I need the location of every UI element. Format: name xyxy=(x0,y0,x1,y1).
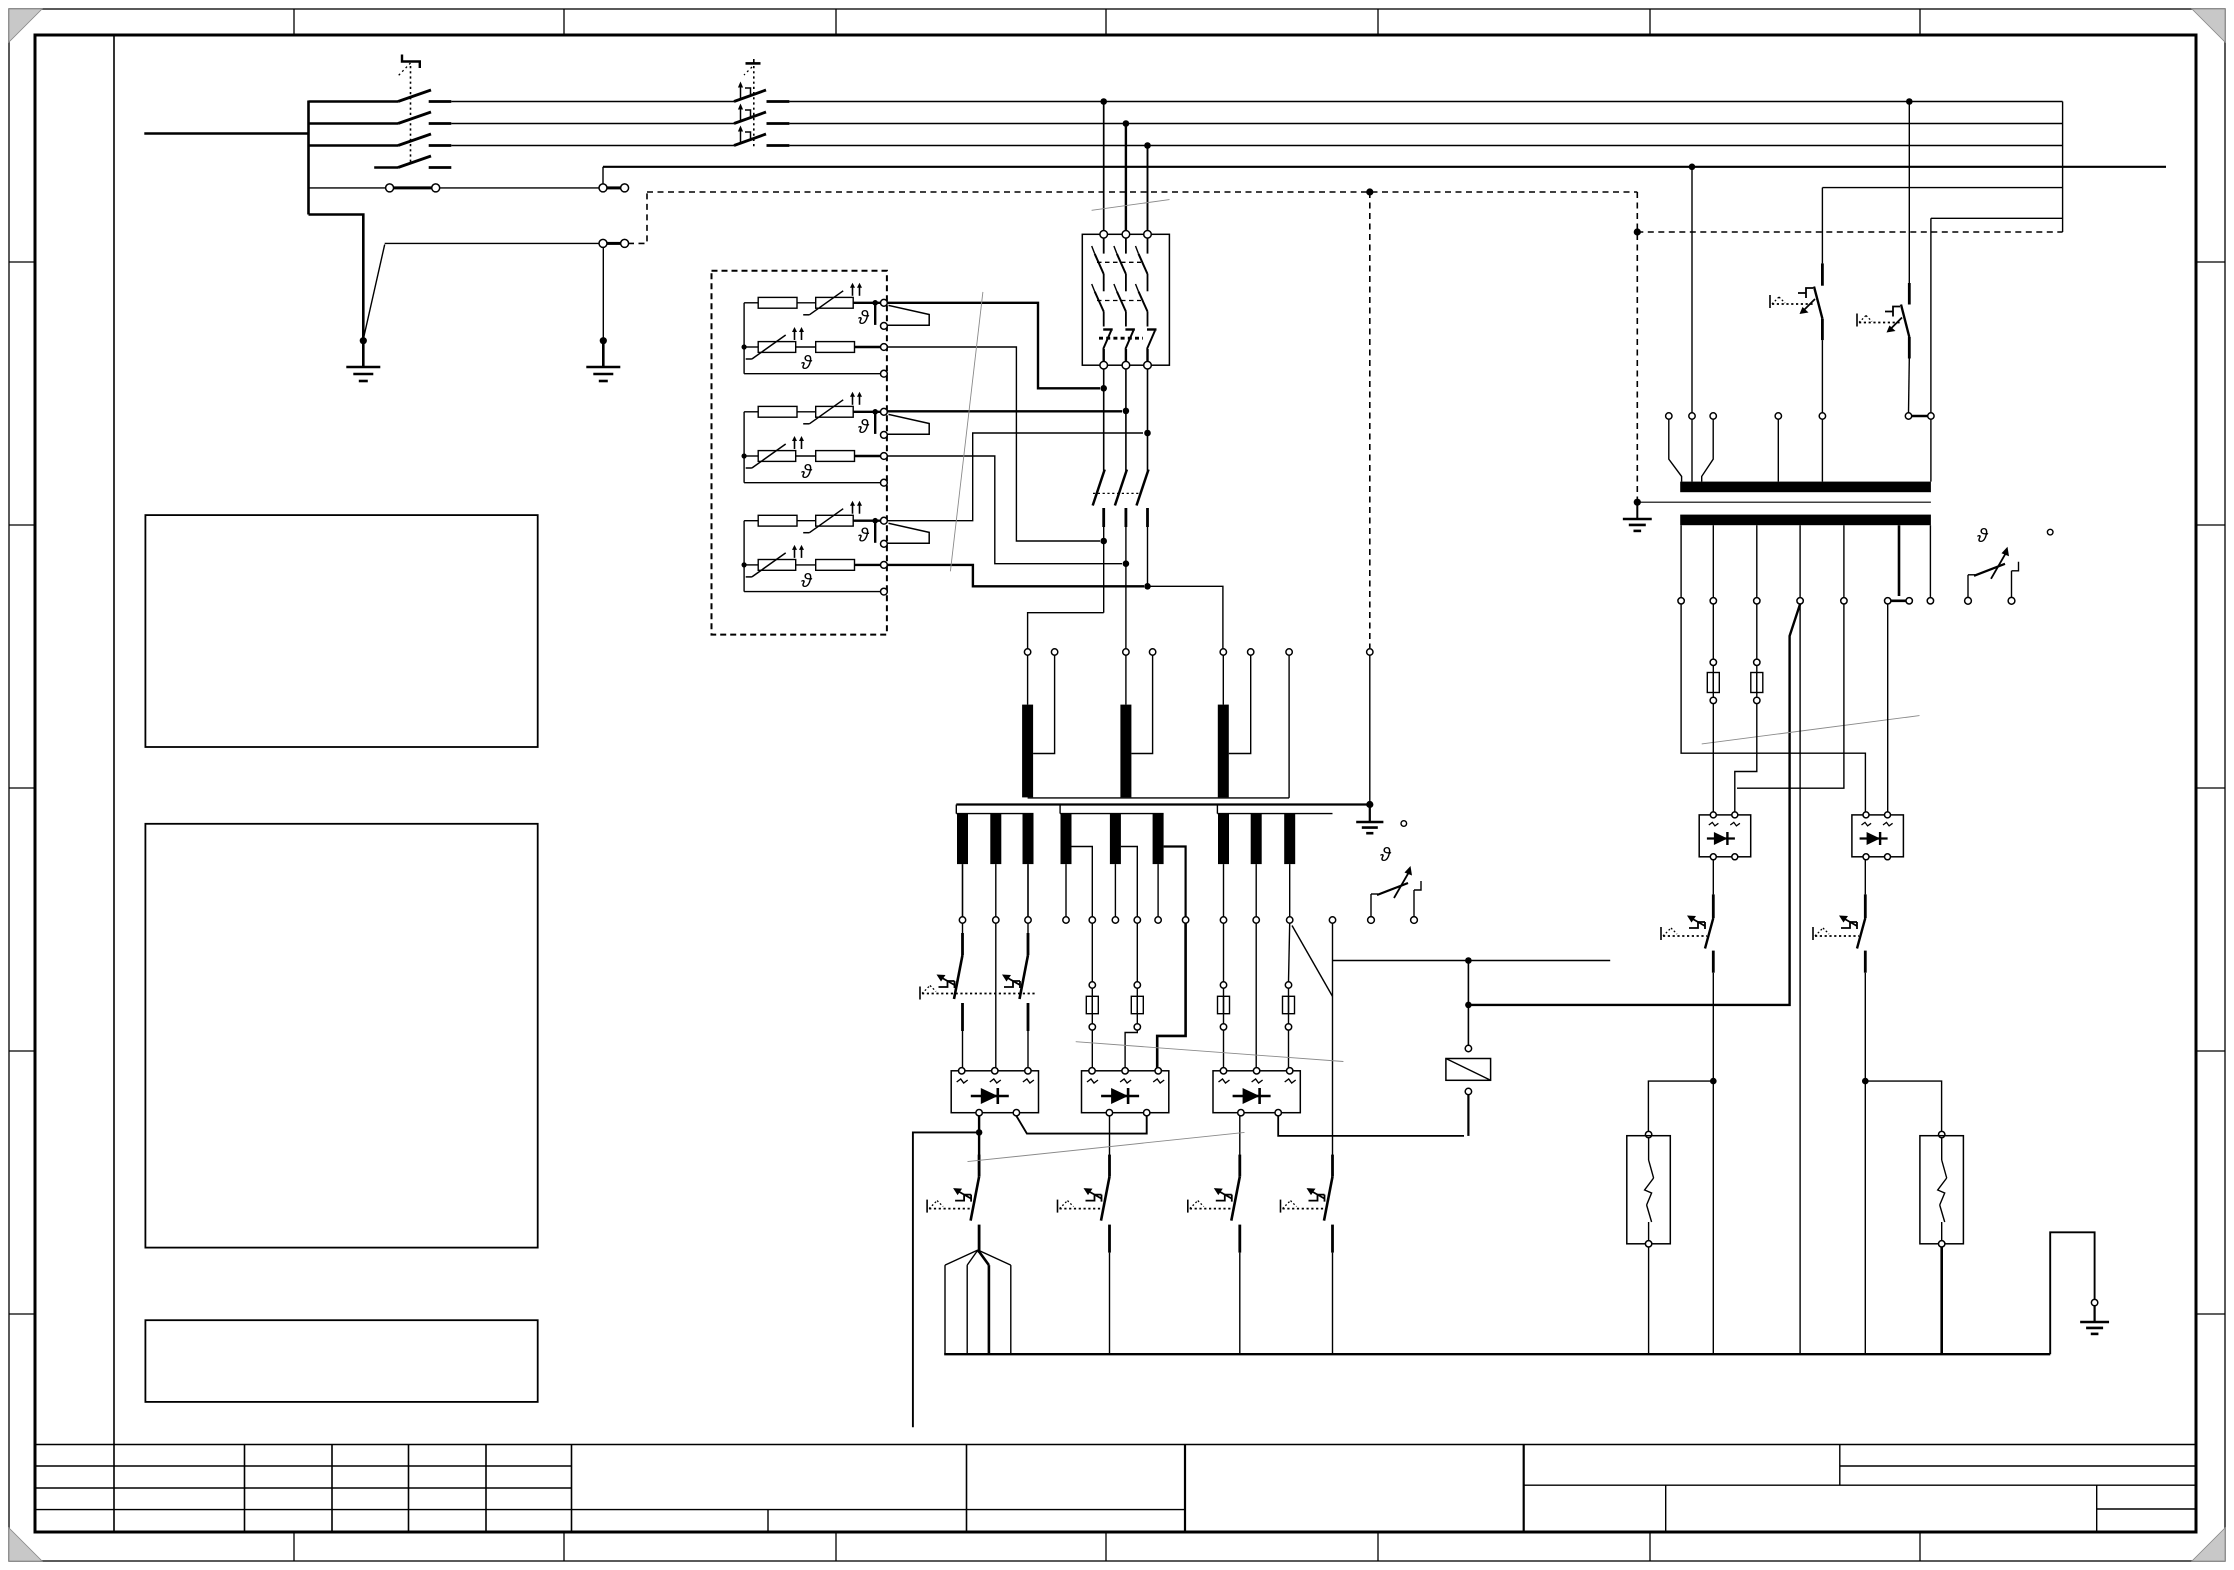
wire pole1 jog to T1 xyxy=(1028,613,1104,649)
linkage Q2 dotted xyxy=(753,66,755,147)
wire branch1 to terminal xyxy=(853,302,881,304)
breaker F13 xyxy=(1238,1155,1241,1177)
svg-text:ϑ: ϑ xyxy=(858,307,870,329)
wire group3 branch1 xyxy=(744,520,758,522)
wire N row 2 xyxy=(440,187,600,189)
contactor K1 linkage row C xyxy=(1099,337,1143,340)
wire group3 branch2 xyxy=(744,564,758,566)
wire supply bus vertical xyxy=(307,101,310,215)
node pole1 upper xyxy=(1100,385,1107,392)
terminal group3 pin4 xyxy=(881,588,888,595)
wire line4 drop to T2 xyxy=(1689,164,1696,171)
wire sec4 long drop xyxy=(1799,604,1801,1354)
arrows RT12 xyxy=(794,331,796,340)
wire T2 tap riser xyxy=(1930,218,1932,412)
breaker S2 xyxy=(1027,933,1030,955)
aux circle theta2 xyxy=(2047,529,2053,535)
breaker F11 xyxy=(978,1155,981,1177)
title block column x1524 xyxy=(1523,1445,1525,1533)
thermistor RT32 xyxy=(758,560,796,571)
border zone ticks bottom xyxy=(293,1532,295,1561)
leader line rectifiers 2 xyxy=(1076,1042,1344,1062)
svg-text:ϑ: ϑ xyxy=(858,525,870,547)
wire bottom rail xyxy=(944,1353,2050,1355)
wire rail right riser xyxy=(2050,1232,2094,1354)
rectifier V4 xyxy=(1699,815,1751,857)
diagram legend box 1 xyxy=(145,515,537,747)
terminal group3 pin3 xyxy=(881,562,888,569)
wire group1 branch1 xyxy=(744,302,758,304)
wire pole2 down xyxy=(1125,369,1127,471)
wire group2 branch2 xyxy=(744,455,758,457)
wire F13 down to rail xyxy=(1239,1253,1241,1355)
contactor K1 linkage row B xyxy=(1097,300,1141,302)
disconnect switch Q1 xyxy=(309,100,399,103)
wire Q drop xyxy=(1908,102,1910,284)
wire sec5 jog xyxy=(1737,604,1844,788)
wire T1 star riser xyxy=(1288,655,1290,798)
wire F2 jog to rectifier xyxy=(1125,1030,1137,1071)
wire S2 down xyxy=(1027,1031,1029,1071)
link N1 xyxy=(386,184,394,192)
terminal group2 pin1 xyxy=(881,408,888,415)
wire diagonal C3 to aux xyxy=(1292,926,1333,997)
wire pole3 lower xyxy=(1147,527,1149,586)
border zone ticks right xyxy=(2196,261,2225,263)
wire aux branch horizontal xyxy=(1333,960,1611,962)
terminal group2 pin2 xyxy=(881,432,888,439)
terminal group1 pin4 xyxy=(881,370,888,377)
wire V1 branch left xyxy=(913,1132,979,1427)
leader line routing xyxy=(950,292,983,571)
wire G1b1 to pole1 xyxy=(887,303,1100,389)
contactor K1 box xyxy=(1082,234,1169,365)
rectifier V3 diode xyxy=(1243,1088,1260,1104)
fuse F5 xyxy=(1707,673,1719,693)
breaker F14 xyxy=(1331,1155,1334,1177)
wire sec tap B1 xyxy=(1072,847,1093,917)
wire P drop xyxy=(1821,188,1823,264)
aux circle theta1 xyxy=(1401,821,1407,827)
terminal row X1 xyxy=(959,917,965,923)
wire G1b2 to pole1 lower xyxy=(887,347,1100,541)
node relay top xyxy=(1465,1002,1472,1009)
ground PE2 xyxy=(602,341,605,367)
breaker F12 xyxy=(1108,1155,1111,1177)
thermal switch F-theta-2 xyxy=(1965,597,1972,604)
contactor K1 top terminals xyxy=(1100,231,1108,239)
relay K2 coil xyxy=(1465,1045,1471,1051)
wire G3b1 to pole3 xyxy=(887,433,1143,521)
wire T1 secondary bus xyxy=(956,803,1370,805)
node earth junction 1 xyxy=(360,337,367,344)
corner triangle bottom-right xyxy=(2192,1528,2225,1561)
arrows RT22 xyxy=(794,440,796,449)
wire bus L1 xyxy=(789,101,2062,103)
wire pole1 lower xyxy=(1103,527,1105,613)
wire C1 fused drop xyxy=(1223,923,1225,981)
wire sec1 to V5 xyxy=(1681,604,1865,815)
surge arrester E2 xyxy=(1939,1131,1945,1137)
wire line4 long horizontal xyxy=(603,166,2166,168)
border zone ticks left xyxy=(9,261,35,263)
wire A2 straight xyxy=(995,923,997,1070)
wire aux drop xyxy=(1332,923,1334,1170)
transformer T1 primary terminals xyxy=(1024,649,1030,655)
wire sec tap B3 thick xyxy=(1164,847,1186,917)
svg-text:ϑ: ϑ xyxy=(801,461,813,483)
frame column divider xyxy=(113,35,115,1445)
contactor K1 contacts xyxy=(1103,238,1105,254)
wire A1 to breaker xyxy=(962,923,964,949)
thermal switch F-theta-1 xyxy=(1368,917,1375,924)
T1 coil 3 xyxy=(1218,705,1229,798)
wire F6 jog xyxy=(1735,704,1757,815)
ground T2 screen xyxy=(1636,502,1638,519)
dashed control bus xyxy=(647,191,1637,193)
wire L3 Q1-Q2 xyxy=(451,145,734,147)
wire PE row xyxy=(385,242,599,244)
fuse F3 xyxy=(1218,996,1230,1013)
wire L3 drop to contactor xyxy=(1147,146,1149,231)
thermistor RT12 xyxy=(758,342,796,353)
wire FB down xyxy=(1864,973,1866,1354)
wire branch1 to terminal xyxy=(853,520,881,522)
rectifier V2 diode xyxy=(1111,1088,1128,1104)
wire T1 star point xyxy=(1028,797,1290,799)
wire B1 fused drop xyxy=(1091,923,1093,981)
wire pole3 down xyxy=(1147,369,1149,471)
wire sec group B top xyxy=(1059,805,1061,814)
wire bus to earth elbow xyxy=(309,215,364,339)
wire supply input xyxy=(144,132,308,135)
wire T2 slant feed 1 xyxy=(1669,419,1682,481)
thermistor RT22 xyxy=(758,451,796,462)
node pole3 lower xyxy=(1144,583,1151,590)
wire pole1 down xyxy=(1103,369,1105,471)
title block columns left xyxy=(244,1445,246,1533)
cable fan-out xyxy=(978,1250,979,1253)
dashed control line from PE link xyxy=(628,192,647,243)
wire pole3 to T1 coil3 xyxy=(1148,586,1223,648)
wire T2 sec drops xyxy=(1680,525,1682,597)
resistor R31 xyxy=(758,515,797,526)
rectifier V1 xyxy=(951,1071,1038,1113)
title block column x1185 xyxy=(1184,1445,1186,1533)
rectifier V2 output terminals xyxy=(1106,1110,1112,1116)
wire relay bus to right xyxy=(1468,604,1800,1005)
wire V2 minus down xyxy=(1109,1116,1111,1170)
surge arrester E2 tail xyxy=(1940,1247,1943,1354)
wire sec A2 down xyxy=(995,864,997,916)
node FB branch xyxy=(1862,1078,1869,1085)
rectifier V1 output terminals xyxy=(976,1110,982,1116)
T2 primary terminals xyxy=(1666,413,1672,419)
wire pole2 lower xyxy=(1125,527,1127,649)
contactor K1 bottom terminals xyxy=(1100,361,1108,369)
wire sec3 fused xyxy=(1756,604,1758,659)
wire V4 out to breaker A xyxy=(1712,860,1714,894)
arrows RT31 xyxy=(852,505,854,514)
wire branch2 to terminal xyxy=(855,455,881,457)
wire branch to arrester R xyxy=(1865,1081,1941,1131)
wire branch1 to terminal xyxy=(853,411,881,413)
node pole1 lower xyxy=(1100,538,1107,545)
node L1 tap contactor xyxy=(1100,98,1107,105)
wire N row xyxy=(309,187,390,189)
wire branch to arrester L xyxy=(1648,1081,1713,1131)
corner triangle bottom-left xyxy=(9,1528,42,1561)
resistor R11 xyxy=(758,297,797,308)
node dashed branch xyxy=(1634,228,1641,235)
wire group2 branch1 xyxy=(744,411,758,413)
wire branch2 to terminal xyxy=(855,564,881,566)
resistor R21 xyxy=(758,406,797,417)
terminal group3 pin2 xyxy=(881,540,888,547)
node L3 tap contactor xyxy=(1144,142,1151,149)
title block column x966 xyxy=(966,1445,968,1533)
wire C3 fused drop xyxy=(1289,923,1290,981)
breaker FB xyxy=(1864,894,1867,918)
terminal group1 pin2 xyxy=(881,323,888,330)
wire slant to earth xyxy=(364,245,385,338)
ground T1 xyxy=(1369,805,1371,823)
wire V5 out to breaker B xyxy=(1864,860,1866,894)
wire PE drop to earth xyxy=(602,247,604,338)
surge arrester E1 xyxy=(1645,1131,1651,1137)
wire B2 fused drop xyxy=(1136,923,1138,981)
wire G2b2 to pole2 lower xyxy=(887,456,1122,564)
node L1 tap right xyxy=(1906,98,1913,105)
wire V1-V2 link xyxy=(1016,1116,1146,1134)
wire F12 down to rail xyxy=(1109,1253,1111,1355)
fuse F4 xyxy=(1283,996,1295,1013)
T2 secondary terminals xyxy=(1678,598,1684,604)
wire T1 feed1 xyxy=(1027,655,1029,704)
wire sec2 fused xyxy=(1712,604,1714,659)
wire group1 branch2 xyxy=(744,346,758,348)
terminal group1 pin3 xyxy=(881,344,888,351)
surge arrester E1 tail xyxy=(1648,1247,1650,1354)
title block right section columns xyxy=(1839,1445,1841,1486)
thermistor RT11 xyxy=(816,297,854,308)
wire L2 Q1-Q2 xyxy=(451,123,734,125)
thermistor RT21 xyxy=(816,406,854,417)
wire group2 branch3 xyxy=(744,482,881,484)
T1 secondary coils xyxy=(957,814,968,865)
node T1 bus earth xyxy=(1366,801,1373,808)
wire group3 bus xyxy=(743,521,745,592)
svg-text:ϑ: ϑ xyxy=(801,352,813,374)
link T2 terminals 6-7 xyxy=(1909,415,1931,417)
T2 primary winding bar xyxy=(1680,482,1931,493)
isolator linkage dotted xyxy=(1093,492,1140,494)
diagram legend box 2 xyxy=(145,824,537,1248)
wire V3 plus to relay return xyxy=(1278,1116,1464,1136)
corner triangle top-right xyxy=(2192,9,2225,42)
wire group2 bus xyxy=(743,412,745,483)
wire T2 feed 4 xyxy=(1777,419,1779,481)
wire bus L3 xyxy=(789,145,2062,147)
circuit breaker Q2 xyxy=(734,90,766,102)
wire T1 feed3 xyxy=(1222,655,1224,704)
fuse F1 xyxy=(1086,996,1098,1013)
svg-text:ϑ: ϑ xyxy=(1977,525,1989,547)
wire F14 down to rail xyxy=(1332,1253,1334,1355)
wire T1 shield drop xyxy=(1369,655,1371,804)
rectifier V3 xyxy=(1213,1071,1300,1113)
terminal group1 pin1 xyxy=(881,299,888,306)
wire relay feed xyxy=(1467,961,1469,1046)
node earth junction 2 xyxy=(600,337,607,344)
terminal earth right xyxy=(2091,1299,2097,1305)
svg-text:ϑ: ϑ xyxy=(858,416,870,438)
arrows RT32 xyxy=(794,549,796,558)
diagram legend box 3 xyxy=(145,1320,537,1402)
wire V1 minus down xyxy=(978,1116,980,1170)
wire sec group A top xyxy=(955,805,957,814)
thermistor RT31 xyxy=(816,515,854,526)
connector wedge group1 xyxy=(887,305,929,325)
wire group1 branch3 xyxy=(744,373,881,375)
wire C2 straight xyxy=(1255,923,1257,1070)
link N2 xyxy=(599,184,607,192)
wire T1 tap1 xyxy=(1033,655,1055,753)
wire sec A1 down xyxy=(962,864,964,916)
wire S1 down xyxy=(962,1031,964,1071)
wire sec group C top xyxy=(1216,805,1218,814)
leader line contactor xyxy=(1092,200,1170,211)
title block rows left xyxy=(35,1465,572,1467)
connector wedge group2 xyxy=(887,414,929,434)
link T2 sec 6-7 xyxy=(1888,599,1910,602)
wire G3b2 to pole3 lower xyxy=(887,565,1144,586)
wire L1 drop to contactor xyxy=(1103,102,1105,231)
wire tee group1 xyxy=(874,303,876,325)
breaker Q xyxy=(1908,283,1911,305)
node dashed tap transformer T1 xyxy=(1366,188,1373,195)
terminal group2 pin4 xyxy=(881,479,888,486)
breaker S1 xyxy=(961,933,964,955)
node screen earth xyxy=(1634,499,1641,506)
wire breaker P feed xyxy=(1822,187,2062,189)
breaker FA xyxy=(1712,894,1715,918)
node aux branch xyxy=(1465,957,1472,964)
wire tee group2 xyxy=(874,412,876,434)
wire L2 drop to contactor xyxy=(1125,124,1127,231)
wire bus collector right xyxy=(2062,102,2064,233)
wire T1 feed2 xyxy=(1125,655,1127,704)
wire group1 bus xyxy=(743,303,745,374)
T2 secondary winding bar xyxy=(1680,515,1931,526)
resistor R32 xyxy=(816,560,855,571)
dashed branch to collector xyxy=(1637,231,2062,233)
wire bus L2 xyxy=(789,123,2062,125)
node FA branch xyxy=(1710,1078,1717,1085)
rectifier V5 xyxy=(1852,815,1904,857)
rectifier V2 xyxy=(1082,1071,1169,1113)
wire sec tap B2 xyxy=(1121,847,1137,917)
node L2 tap contactor xyxy=(1123,120,1130,127)
node pole3 upper xyxy=(1144,430,1151,437)
wire T2 feed 2 xyxy=(1691,419,1693,481)
title block cell divider x768 xyxy=(767,1510,769,1532)
wire T2 feed 7 xyxy=(1930,419,1932,481)
fuse F2 xyxy=(1131,996,1143,1013)
terminal group3 pin1 xyxy=(881,517,888,524)
wire L1 Q1-Q2 xyxy=(451,101,734,103)
title block right section rows xyxy=(1840,1465,2196,1467)
wire FA down xyxy=(1712,973,1714,1354)
rectifier V3 output terminals xyxy=(1238,1110,1244,1116)
fuse F6 xyxy=(1751,673,1763,693)
svg-text:ϑ: ϑ xyxy=(801,570,813,592)
wire V3 minus down xyxy=(1239,1116,1241,1170)
resistor R12 xyxy=(816,342,855,353)
contactor K1 linkage row A xyxy=(1097,261,1141,263)
wire sec B-C bottoms xyxy=(1065,864,1067,916)
linkage S1-S2 dotted xyxy=(922,993,1036,995)
wire tee group3 xyxy=(874,521,876,543)
wire A3 to breaker xyxy=(1027,923,1029,949)
wire T2 slant feed 3 xyxy=(1702,419,1714,481)
arrows RT11 xyxy=(852,287,854,296)
T1 coil 2 xyxy=(1120,705,1131,798)
rectifier V1 diode xyxy=(981,1088,998,1104)
wire branch2 to terminal xyxy=(855,346,881,348)
T2 screen line xyxy=(1637,501,1931,503)
dashed drop right transformer xyxy=(1636,192,1638,502)
wire group3 branch3 xyxy=(744,591,881,593)
wire T2 feed 5 xyxy=(1821,419,1823,481)
linkage Q1 dotted xyxy=(410,66,412,164)
dashed drop to T1 shield terminal xyxy=(1369,192,1371,648)
connector wedge group3 xyxy=(887,523,929,543)
T1 coil 1 xyxy=(1022,705,1033,798)
node pole2 lower xyxy=(1123,560,1130,567)
wire B3 thick drop xyxy=(1157,923,1185,1070)
corner triangle top-left xyxy=(9,9,42,42)
handle Q1 xyxy=(402,55,420,69)
wire relay bottom xyxy=(1467,1095,1469,1136)
arrows RT21 xyxy=(852,396,854,405)
wire sec6 drop xyxy=(1887,604,1889,815)
dashed enclosure thermistor unit xyxy=(712,271,887,635)
leader line right transformer xyxy=(1702,716,1920,744)
svg-text:ϑ: ϑ xyxy=(1380,844,1392,866)
wire riser to line4 xyxy=(602,167,604,184)
title block top line xyxy=(35,1444,2196,1446)
link PE xyxy=(599,239,607,247)
breaker P xyxy=(1821,263,1824,285)
leader line rectifiers 1 xyxy=(968,1132,1245,1161)
wire T1 tap3 xyxy=(1229,655,1251,753)
handle Q2 xyxy=(746,62,761,65)
isolator switch 3p xyxy=(1093,470,1105,506)
ground PE right xyxy=(2094,1306,2096,1322)
terminal group2 pin3 xyxy=(881,453,888,460)
ground PE1 xyxy=(362,341,365,367)
wire G2b1 to pole2 xyxy=(887,410,1122,412)
border zone ticks top xyxy=(293,9,295,35)
wire transformer tap feed xyxy=(1931,217,2063,219)
wire sec A3 down xyxy=(1027,864,1029,916)
node pole2 upper xyxy=(1123,408,1130,415)
wire T1 tap2 xyxy=(1131,655,1152,753)
resistor R22 xyxy=(816,451,855,462)
node V1 branch xyxy=(976,1129,983,1136)
